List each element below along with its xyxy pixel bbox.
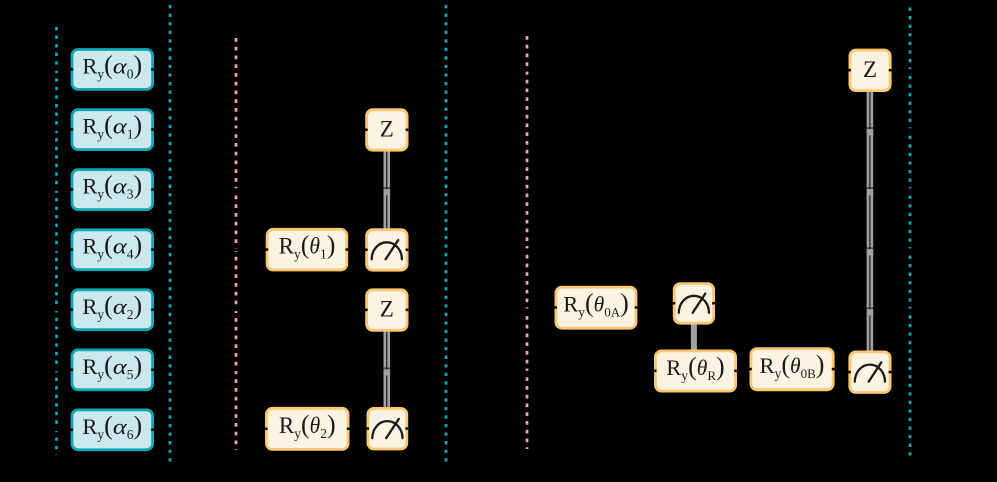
gate Ry(thetaR)	[654, 351, 737, 391]
svg-text:Z: Z	[380, 297, 394, 322]
svg-text:Ry(θ1): Ry(θ1)	[279, 231, 336, 262]
gate Ry(theta2)	[265, 408, 350, 449]
wire crossing bites over dotted lines	[54, 68, 913, 431]
classical wire M3 to RyThetaR	[691, 322, 697, 351]
svg-text:Z: Z	[380, 117, 394, 142]
measurement M1	[365, 230, 408, 271]
gate Z3	[848, 50, 891, 91]
gate Ry(theta0B)	[749, 349, 834, 390]
classical wire Z2 to M2	[382, 329, 392, 410]
gate Ry(alpha6)	[70, 410, 153, 450]
separator dotted line teal 3	[445, 5, 448, 462]
gate Ry(alpha5)	[70, 350, 153, 390]
gate Ry(theta0A)	[554, 287, 637, 328]
gate Ry(alpha3)	[70, 170, 153, 210]
gate Ry(alpha4)	[70, 230, 153, 270]
svg-text:Ry(α1): Ry(α1)	[82, 111, 142, 142]
separator dotted line teal 4	[909, 8, 912, 457]
gate Ry(alpha0)	[70, 50, 153, 90]
measurement M3	[673, 284, 715, 324]
classical wire Z1 to M1	[382, 149, 392, 231]
svg-text:Ry(α5): Ry(α5)	[82, 351, 142, 382]
svg-text:Z: Z	[863, 57, 877, 82]
svg-text:Ry(α6): Ry(α6)	[82, 411, 142, 442]
svg-text:Ry(θR): Ry(θR)	[666, 352, 724, 383]
measurement M4	[848, 352, 891, 393]
separator dotted line pink 1	[235, 38, 238, 450]
svg-text:Ry(θ2): Ry(θ2)	[279, 410, 336, 441]
svg-text:Ry(α3): Ry(α3)	[82, 171, 142, 202]
svg-text:Ry(α0): Ry(α0)	[82, 51, 142, 82]
gate Z1	[365, 110, 408, 151]
gate Ry(theta1)	[266, 229, 349, 270]
separator dotted line teal 1	[55, 27, 58, 455]
classical wire Z3 to M4	[865, 92, 875, 353]
separator dotted line teal 2	[169, 5, 172, 462]
gate Z2	[365, 290, 408, 331]
gate Ry(alpha1)	[70, 110, 153, 150]
gate Ry(alpha2)	[70, 290, 153, 330]
svg-text:Ry(α2): Ry(α2)	[82, 291, 142, 322]
svg-text:Ry(α4): Ry(α4)	[82, 231, 142, 262]
separator dotted line pink 2	[526, 36, 529, 449]
measurement M2	[366, 408, 408, 449]
